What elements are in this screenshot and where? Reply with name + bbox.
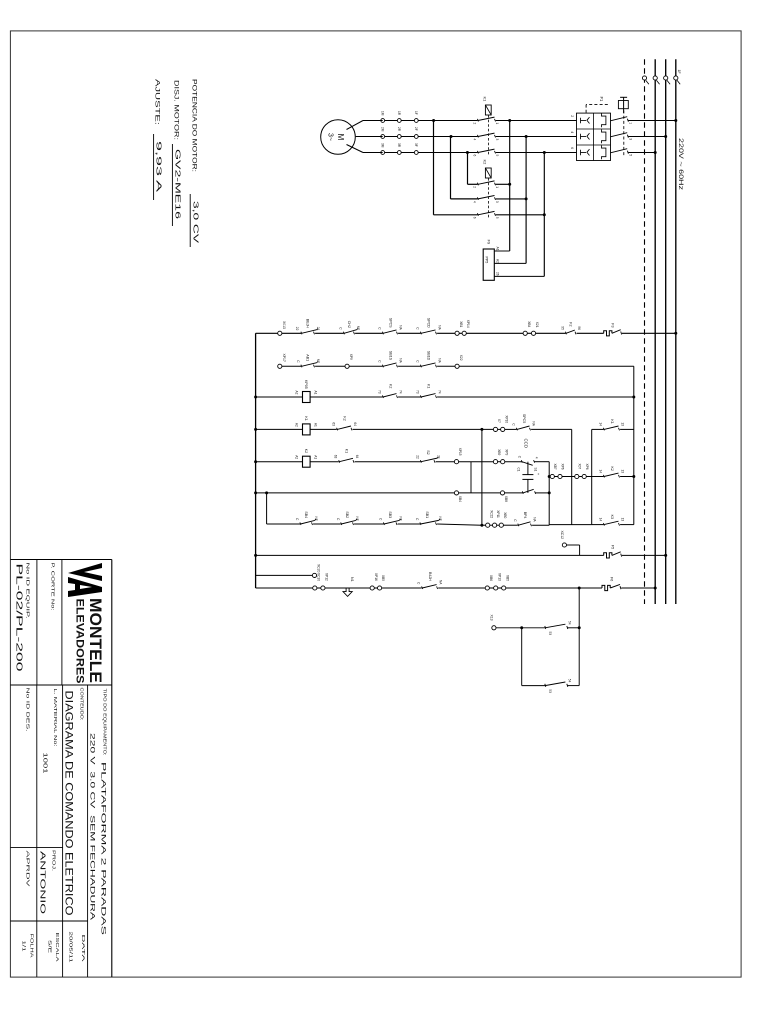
svg-text:XB5: XB5 (505, 575, 509, 581)
svg-text:K2: K2 (610, 467, 614, 471)
wire motor lead 3 down (363, 152, 383, 154)
junction ccd stub (548, 475, 551, 478)
svg-text:N1: N1 (350, 577, 354, 582)
svg-text:A2: A2 (294, 423, 298, 427)
svg-text:F9: F9 (487, 240, 492, 245)
contactor K2 contact pole 3 (477, 213, 478, 216)
contact SB1D (NO) (420, 365, 421, 368)
svg-text:96: 96 (577, 326, 581, 330)
svg-text:SB1: SB1 (425, 511, 429, 518)
junction top joint rung3 (632, 396, 635, 399)
contact SPCD (NO) (420, 332, 421, 335)
terminal circle XC10 (313, 586, 317, 590)
svg-text:C: C (379, 518, 383, 521)
svg-text:NA: NA (533, 517, 537, 522)
contactor K2 contact pole 1 (477, 183, 478, 186)
breaker F3 (604, 331, 612, 336)
terminal circle motor lead 1R (397, 119, 401, 123)
wire rung1 a (282, 332, 301, 334)
wire bus line 4 neutral (dashed) (644, 59, 646, 604)
junction rail (254, 460, 257, 463)
wire block branch 3 lower (592, 524, 604, 526)
svg-text:AJUSTE:: AJUSTE: (154, 79, 161, 125)
terminal circle XB5b (502, 586, 506, 590)
wire rung7 f (490, 524, 493, 526)
contactor K1 drive box (485, 105, 491, 115)
svg-text:XP13: XP13 (497, 573, 501, 581)
wire rung5 g (534, 461, 549, 463)
wire phase swap 2 (L2 to K2 pole2) (450, 137, 452, 199)
wire rung2 lower (278, 365, 301, 367)
svg-text:1: 1 (628, 122, 632, 124)
svg-text:C: C (336, 518, 340, 521)
svg-text:2: 2 (472, 123, 476, 125)
svg-text:XB4: XB4 (458, 496, 462, 502)
svg-text:XP16: XP16 (374, 573, 378, 581)
wire rungB f (489, 587, 493, 589)
svg-text:9,93 A: 9,93 A (155, 141, 164, 192)
svg-text:SB1S: SB1S (389, 351, 393, 361)
contact CCD in (NO) (521, 460, 522, 463)
svg-text:6: 6 (472, 155, 476, 157)
contact B42H (NO) (422, 586, 423, 589)
svg-text:C: C (517, 456, 521, 459)
junction rungA bus2 (664, 554, 667, 557)
wire rungB top (621, 587, 655, 589)
svg-text:BEJH: BEJH (306, 319, 310, 329)
svg-text:NF: NF (356, 326, 360, 330)
svg-text:2F: 2F (414, 127, 418, 131)
wire phase tap 2 (525, 137, 527, 264)
svg-text:220 V 3.0 CV SEM FECHADURA: 220 V 3.0 CV SEM FECHADURA (89, 733, 96, 921)
svg-text:GV2-ME16: GV2-ME16 (174, 149, 183, 219)
wire rung4 b (353, 428, 494, 430)
svg-text:KP05: KP05 (304, 380, 308, 389)
contact K3 13-14 (NO) (603, 523, 604, 526)
wire phase swap 1 (L1 to K2 pole3) (433, 121, 435, 215)
svg-text:NF: NF (438, 517, 442, 521)
svg-text:A1: A1 (313, 423, 317, 427)
svg-text:21: 21 (316, 327, 320, 331)
wire loop branch2 upper (567, 685, 579, 687)
junction bus drop 2 (664, 135, 667, 138)
svg-text:F3: F3 (611, 323, 615, 327)
breaker Q1 pole 1 fixed terminal (627, 119, 628, 122)
svg-text:3~: 3~ (327, 133, 334, 141)
wire rung7 e (482, 524, 486, 526)
svg-text:6: 6 (570, 147, 574, 149)
wire rung5 d (459, 461, 494, 463)
terminal circle X21 (531, 331, 535, 335)
svg-text:73: 73 (415, 390, 419, 394)
svg-text:XP14: XP14 (466, 320, 470, 328)
wire bus drop pole 2 (629, 136, 666, 138)
breaker Q1 pole 3 blade (610, 149, 627, 153)
wire rung1 lower (256, 332, 278, 334)
svg-text:54: 54 (567, 679, 571, 683)
wire rung7 h (503, 524, 518, 526)
svg-text:S/E: S/E (47, 940, 53, 953)
title block outline (10, 559, 111, 561)
svg-text:A1: A1 (313, 455, 317, 459)
svg-text:F6: F6 (610, 577, 614, 581)
wire rungB a (317, 587, 321, 589)
junction rail (254, 554, 257, 557)
terminal circle XB8 (500, 491, 504, 495)
svg-text:A2: A2 (495, 259, 499, 263)
svg-text:3: 3 (628, 138, 632, 140)
svg-text:F2: F2 (569, 322, 573, 326)
wire F9 A2 (494, 262, 526, 264)
underline potencia (189, 194, 191, 247)
contact SB3 (NC) (383, 522, 384, 525)
svg-text:PROJ.: PROJ. (52, 850, 57, 871)
wire block branch 2 upper (620, 476, 634, 478)
svg-text:4: 4 (472, 201, 476, 203)
svg-text:CH2: CH2 (347, 321, 351, 328)
svg-text:C: C (513, 519, 517, 522)
wire rung3 upper (437, 396, 634, 398)
terminal circle motor lead 2M (381, 135, 385, 139)
svg-text:NA: NA (438, 358, 442, 363)
wire block bottom (591, 429, 593, 524)
wire bridge rung5-rung6 (470, 462, 472, 493)
wire rung2 a (315, 365, 345, 367)
wire block branch 1 upper (620, 428, 634, 430)
svg-text:K2: K2 (304, 449, 308, 453)
wire top joint (633, 366, 635, 524)
svg-text:73: 73 (377, 390, 381, 394)
svg-text:3: 3 (495, 139, 499, 141)
svg-text:K1: K1 (345, 449, 349, 453)
wire cross link (481, 429, 483, 525)
wire ccd top (548, 462, 550, 526)
svg-text:SB1D: SB1D (427, 351, 431, 361)
svg-text:3F: 3F (414, 143, 418, 147)
wire rung4 jog (571, 429, 573, 524)
svg-text:XC20: XC20 (317, 564, 321, 573)
svg-text:SB2: SB2 (345, 511, 349, 518)
svg-text:64: 64 (355, 455, 359, 459)
svg-text:K1: K1 (304, 416, 308, 420)
svg-text:FOLHA: FOLHA (29, 934, 35, 959)
breaker Q1 body (577, 113, 611, 160)
relay F9 body (483, 249, 494, 280)
svg-text:DATA: DATA (80, 935, 86, 964)
junction tap pole 1 (508, 119, 511, 122)
terminal circle X013 (278, 331, 282, 335)
linkage K2 (dashed) (487, 178, 489, 218)
svg-text:K1: K1 (483, 97, 488, 103)
wire motor lead 2 down (356, 136, 383, 138)
svg-text:NF: NF (355, 517, 359, 521)
terminal circle XB9 (493, 460, 497, 464)
contact SB1S (NO) (382, 365, 383, 368)
terminal circle motor lead 1M (381, 119, 385, 123)
linkage K1 (dashed) (487, 115, 489, 156)
junction top joint block mid (632, 475, 635, 478)
contact SPCS (NO) (382, 332, 383, 335)
breaker Q1 thermal element pole 2 (602, 130, 606, 144)
contact AB1 (NC) (301, 365, 302, 368)
contact K1 13-14 (NO) (603, 428, 604, 431)
contactor K2 drive box (485, 168, 491, 178)
terminal circle motor lead 2R (397, 135, 401, 139)
svg-text:S2: S2 (426, 450, 430, 454)
contact branch1 53-54 (NO) (567, 626, 568, 629)
junction rail (254, 491, 257, 494)
wire rung2 c (398, 365, 420, 367)
svg-text:XP9: XP9 (349, 354, 353, 360)
title block logo column divider (10, 684, 111, 686)
terminal circle on bus line 1 (674, 76, 678, 80)
wire bus line 3 (phase T) (654, 59, 656, 604)
wire rung1 g (466, 332, 523, 334)
svg-text:53: 53 (548, 632, 552, 636)
title block left row line 2 (36, 560, 38, 686)
title block right row line 3 (36, 685, 38, 977)
terminal circle motor lead 3F (414, 151, 418, 155)
svg-text:C: C (415, 327, 419, 330)
svg-text:3,0 CV: 3,0 CV (192, 201, 201, 243)
terminal circle XP12 (321, 586, 325, 590)
svg-text:+: + (536, 473, 540, 475)
svg-text:13: 13 (621, 470, 625, 474)
terminal circle X07 (575, 474, 579, 478)
wire rung4 a (310, 428, 337, 430)
svg-text:XB1: XB1 (459, 321, 463, 327)
wire rung5 b (355, 461, 421, 463)
svg-text:POTENCIA DO MOTOR:: POTENCIA DO MOTOR: (191, 79, 198, 172)
junction cross rung4 (480, 428, 483, 431)
svg-text:SB4: SB4 (304, 511, 308, 518)
junction loop branch1 (578, 626, 581, 629)
terminal circle on bus line 4 (642, 76, 646, 80)
svg-text:1: 1 (495, 123, 499, 125)
title block left row line 1 (61, 560, 63, 686)
svg-text:M: M (336, 134, 345, 141)
svg-text:XB6: XB6 (489, 575, 493, 581)
svg-text:4: 4 (535, 457, 539, 459)
title block right row line 1 (87, 685, 89, 977)
svg-text:C1: C1 (517, 468, 521, 472)
wire rungB e (438, 587, 485, 589)
underline ajuste (153, 134, 155, 200)
terminal circle XC22 (486, 523, 490, 527)
svg-text:ELEVADORES: ELEVADORES (74, 599, 86, 684)
wire K2 column 1 upper (496, 183, 510, 185)
wire bus drop pole 1 (629, 120, 676, 122)
coil K2 (303, 456, 311, 467)
wire rung4 e (531, 428, 572, 430)
svg-text:DIAGRAMA DE COMANDO ELETRICO: DIAGRAMA DE COMANDO ELETRICO (63, 691, 75, 916)
contact BEJH (NC) (301, 332, 302, 335)
wire rung7 a (313, 523, 341, 525)
svg-text:XB5: XB5 (381, 575, 385, 581)
svg-text:14: 14 (599, 518, 603, 522)
wire rungB h (506, 587, 602, 589)
wire rung1 e (437, 332, 455, 334)
svg-text:X7: X7 (497, 419, 501, 423)
svg-text:C: C (296, 360, 300, 363)
junction loop bottom (520, 626, 523, 629)
wire rung4 c (498, 428, 501, 430)
svg-text:1F: 1F (414, 111, 418, 115)
wire rungB c (374, 587, 377, 589)
svg-text:F5: F5 (611, 545, 615, 549)
svg-text:74: 74 (399, 390, 403, 394)
breaker Q1 pole 2 fixed terminal (627, 135, 628, 138)
junction tap pole 3 (543, 151, 546, 154)
svg-text:NF: NF (316, 359, 320, 363)
junction bus drop 3 (654, 151, 657, 154)
wire F9 A1 (494, 250, 509, 252)
terminal circle XB1 (455, 331, 459, 335)
svg-text:21: 21 (436, 455, 440, 459)
wire rung5 lower (256, 461, 303, 463)
svg-text:PLATAFORMA 2 PARADAS: PLATAFORMA 2 PARADAS (100, 762, 107, 935)
wire rung1 c (355, 332, 382, 334)
breaker Q1 pole 3 fixed terminal (627, 151, 628, 154)
wire motor column 2 (383, 136, 478, 138)
svg-text:NA: NA (439, 580, 443, 585)
contact SPC5 (NO) (516, 428, 517, 431)
svg-text:95: 95 (560, 326, 564, 330)
svg-text:2: 2 (472, 186, 476, 188)
breaker Q1 magnetic element I> pole 2 (587, 133, 590, 139)
svg-text:1M: 1M (380, 111, 384, 116)
svg-text:4: 4 (472, 139, 476, 141)
logo VIA mark (68, 563, 102, 581)
wire rung4 d (505, 428, 517, 430)
svg-text:ESCALA: ESCALA (54, 933, 60, 963)
terminal circle motor lead 3R (397, 151, 401, 155)
svg-text:1001: 1001 (42, 753, 48, 774)
svg-text:220V ~ 60Hz: 220V ~ 60Hz (677, 138, 684, 190)
wire rung3 mid2 (398, 396, 420, 398)
junction K2 tap 2 (525, 197, 528, 200)
terminal circle XP15 (454, 460, 458, 464)
contact K2 73-74 (NO) (382, 395, 383, 398)
wire rung7 i (532, 524, 549, 526)
wire block top segment (592, 428, 634, 430)
svg-text:5: 5 (495, 155, 499, 157)
terminal circle XB4 (523, 331, 527, 335)
svg-text:CCD: CCD (524, 439, 529, 449)
svg-text:K2: K2 (343, 416, 347, 420)
terminal circle XP16 (370, 586, 374, 590)
net arrow N1 (343, 588, 352, 596)
svg-text:K2: K2 (483, 160, 488, 166)
svg-text:X013: X013 (282, 321, 286, 329)
wire motor column 1 (383, 120, 478, 122)
svg-text:X21: X21 (535, 322, 539, 328)
wire rung1 i (536, 332, 566, 334)
wire loop branch2 lower (522, 685, 545, 687)
terminal circle XC12 (562, 543, 566, 547)
svg-text:4: 4 (570, 131, 574, 133)
contact K2 63-64 (NO) (337, 428, 338, 431)
svg-text:1: 1 (495, 186, 499, 188)
wire bus drop pole 3 (629, 152, 656, 154)
title block right row line 2 (62, 685, 64, 977)
wire K1 column 2 (496, 136, 577, 138)
junction bus drop 1 (674, 119, 677, 122)
svg-text:C: C (511, 423, 515, 426)
capacitor C1 (522, 474, 533, 476)
svg-text:TIPO DO EQUIPAMENTO:: TIPO DO EQUIPAMENTO: (102, 689, 108, 756)
svg-text:54: 54 (567, 621, 571, 625)
svg-text:S1: S1 (534, 468, 538, 472)
svg-text:NF: NF (314, 517, 318, 521)
svg-text:1/1: 1/1 (21, 941, 27, 953)
wire F9 26 (494, 275, 544, 277)
terminal circle XP17 (278, 364, 282, 368)
wire rungB lower (256, 587, 313, 589)
junction rungB bus3 (654, 587, 657, 590)
title block col divider B (10, 920, 87, 922)
svg-text:NA: NA (438, 325, 442, 330)
terminal circle XB7 (550, 474, 554, 478)
contactor K1 contact pole 3 (477, 151, 478, 154)
junction rung1 bus1 (674, 332, 677, 335)
svg-text:XP11: XP11 (496, 510, 500, 518)
svg-text:K2: K2 (389, 384, 393, 388)
svg-text:No ID DES.: No ID DES. (25, 688, 31, 732)
underline disj (171, 144, 173, 226)
svg-text:ANTONIO: ANTONIO (39, 851, 46, 915)
junction K2 tap 1 (508, 183, 511, 186)
svg-text:MONTELE: MONTELE (86, 598, 104, 683)
breaker Q1 pole 2 blade (610, 133, 627, 137)
svg-text:53: 53 (548, 689, 552, 693)
contact SB2 (NC) (341, 522, 342, 525)
svg-text:SPCS: SPCS (389, 318, 393, 328)
terminal circle XB5 (378, 586, 382, 590)
wire rung6 mid (459, 492, 501, 494)
svg-text:C: C (338, 327, 342, 330)
wire rung3 mid (310, 396, 382, 398)
svg-text:X07: X07 (578, 464, 582, 470)
svg-text:XB8: XB8 (504, 496, 508, 502)
contact F2 (NO) (565, 332, 566, 335)
svg-text:22: 22 (295, 327, 299, 331)
svg-text:5: 5 (628, 154, 632, 156)
svg-text:1R: 1R (397, 111, 401, 116)
svg-text:2M: 2M (380, 127, 384, 132)
wire rung6 top (535, 492, 549, 494)
svg-text:NA: NA (399, 325, 403, 330)
terminal circle XB6 (485, 586, 489, 590)
wire loop branch1 upper (567, 627, 579, 629)
wire rung2 d (437, 365, 455, 367)
svg-text:5: 5 (495, 217, 499, 219)
junction tap pole 2 (525, 135, 528, 138)
terminal circle XP13 (494, 586, 498, 590)
contact BP4 (NO) (518, 524, 519, 527)
wire rung6 lower (256, 492, 455, 494)
contact SB1 (NC) (420, 522, 421, 525)
junction rung6 jog (265, 491, 268, 494)
svg-text:NF: NF (399, 517, 403, 521)
svg-text:63: 63 (334, 455, 338, 459)
svg-text:P. CORTE No:: P. CORTE No: (51, 563, 56, 611)
contactor K2 contact pole 2 (477, 197, 478, 200)
terminal circle XB4b (454, 491, 458, 495)
breaker F6 (602, 585, 610, 590)
contact S2 (NC) (420, 460, 421, 463)
wire capacitor link (527, 462, 529, 475)
